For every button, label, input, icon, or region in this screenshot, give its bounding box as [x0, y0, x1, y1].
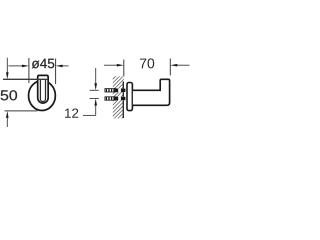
hook tip inner slot [40, 79, 45, 101]
dimension 12 bottom tick [90, 98, 99, 100]
dimension text 70 [140, 58, 154, 68]
hook tip outline (front view U shape) [38, 75, 48, 103]
dimension text 12 [65, 108, 78, 117]
dimension 12 top arrow [95, 68, 97, 85]
wall hatching [108, 62, 130, 140]
dimension 50 top arrow [6, 58, 8, 74]
dimension Ø45 left extension line [28, 58, 30, 83]
dimension text Ø45 [32, 59, 55, 69]
dimension text 50 [1, 90, 17, 100]
hook arm (side view) [133, 79, 170, 105]
dimension 12 top tick [90, 89, 99, 91]
dimension 50 bottom extension line [5, 110, 38, 112]
mounting plate (side view) [127, 83, 132, 111]
dimension Ø45 right arrow [61, 65, 69, 67]
wall surface line [122, 82, 124, 119]
dimension Ø45 right extension line [55, 59, 57, 85]
screw bottom [105, 97, 126, 100]
dimension Ø45 left arrow [9, 65, 24, 67]
dimension 12 bottom arrow + leader [95, 104, 97, 115]
dimension 50 bottom arrow [6, 117, 8, 127]
dimension 50 top extension line [3, 78, 48, 80]
dimension 70 left arrow [104, 64, 119, 66]
screw top [105, 89, 126, 92]
dimension 70 right arrow [176, 64, 190, 66]
dimension 70 left extension line [123, 60, 125, 77]
dimension 70 right extension line [169, 59, 171, 76]
plate circle (front view, Ø45) [29, 81, 56, 111]
